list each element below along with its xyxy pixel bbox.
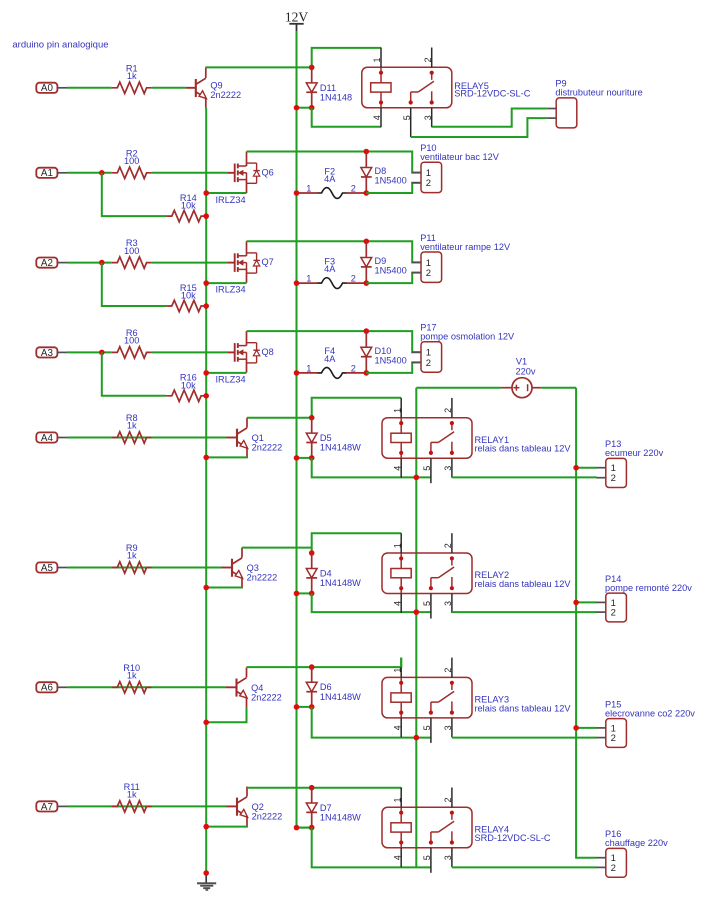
svg-text:2n2222: 2n2222 — [247, 573, 278, 583]
resistor R2 100 — [112, 148, 152, 178]
svg-text:1N4148: 1N4148 — [320, 92, 352, 102]
fuse F2 4A — [297, 166, 367, 198]
fuse F3 4A — [297, 256, 367, 288]
fuse F4 4A — [297, 346, 367, 378]
wire collector to RELAY3 pin 1 — [312, 658, 402, 668]
node 12V rail to F2 — [294, 190, 300, 196]
svg-text:2: 2 — [423, 57, 433, 62]
svg-text:SRD-12VDC-SL-C: SRD-12VDC-SL-C — [475, 833, 551, 843]
svg-text:1N4148W: 1N4148W — [320, 812, 361, 822]
svg-text:ecumeur 220v: ecumeur 220v — [605, 448, 664, 458]
svg-text:A0: A0 — [41, 83, 54, 94]
node 12V rail junction D7 — [294, 825, 300, 831]
node D11 anode junction — [309, 65, 315, 71]
wire D5 bottom to RELAY1 pins 4,5 — [312, 458, 431, 478]
svg-text:pompe remonté 220v: pompe remonté 220v — [605, 583, 692, 593]
svg-text:1k: 1k — [127, 421, 137, 431]
node 12V rail junction row 1 — [294, 105, 300, 111]
svg-text:D7: D7 — [320, 803, 332, 813]
wire A0 to R1 — [67, 87, 112, 89]
wire F4 to P17 pin 2 — [366, 362, 421, 373]
wire F3 to P11 pin 2 — [366, 273, 421, 284]
svg-text:4: 4 — [392, 466, 402, 471]
svg-text:2: 2 — [443, 543, 453, 548]
wire A7 to Q2 base — [67, 805, 227, 807]
wire overlay RELAY3 pin 1 — [400, 658, 402, 668]
svg-text:1N4148W: 1N4148W — [320, 443, 361, 453]
power supply 12V symbol — [285, 10, 309, 32]
node D8 cathode junction — [364, 149, 370, 155]
node Q4 emitter junction — [203, 720, 209, 726]
svg-text:10k: 10k — [181, 201, 196, 211]
wire RELAY4 pin 3 to P16 pin 2 — [452, 866, 597, 868]
wire emitter/ground rail — [205, 108, 207, 873]
svg-text:5: 5 — [422, 855, 432, 860]
svg-text:distrubuteur nouriture: distrubuteur nouriture — [555, 88, 642, 98]
node R14 to ground rail — [203, 213, 209, 219]
node 220v rail junction P13 — [573, 465, 579, 471]
wire 12V rail — [297, 31, 312, 828]
wire R6 to Q8 gate — [152, 351, 228, 353]
wire branch to R16 — [102, 352, 167, 395]
transistor Q2 2n2222 — [227, 787, 283, 827]
svg-text:1N5400: 1N5400 — [375, 355, 407, 365]
svg-text:10k: 10k — [181, 380, 196, 390]
node Q7 source junction — [203, 280, 209, 286]
relay RELAY2 — [382, 533, 571, 618]
svg-text:1k: 1k — [127, 551, 137, 561]
node A3 branch — [99, 350, 105, 356]
svg-text:1: 1 — [306, 274, 311, 284]
node 12V rail to F4 — [294, 370, 300, 376]
node D4 cathode junction — [309, 591, 315, 597]
wire D11 top to RELAY5 pin 1 — [312, 48, 381, 68]
port A6 — [36, 682, 67, 694]
svg-text:1: 1 — [392, 797, 402, 802]
svg-text:2: 2 — [426, 268, 431, 279]
wire Q2 collector to D7 — [247, 787, 312, 789]
svg-text:V1: V1 — [516, 356, 527, 366]
svg-text:relais dans tableau 12V: relais dans tableau 12V — [475, 703, 572, 713]
wire D6 bottom to RELAY3 pins 4,5 — [312, 707, 431, 738]
svg-text:elecrovanne co2 220v: elecrovanne co2 220v — [605, 708, 695, 718]
port A1 — [36, 168, 67, 180]
diode D11 1N4148 — [306, 67, 352, 107]
svg-text:3: 3 — [443, 855, 453, 860]
wire A2 to R3 — [67, 262, 112, 264]
port A2 — [36, 258, 67, 270]
transistor Q6 IRLZ34 — [227, 152, 274, 194]
svg-text:4: 4 — [392, 855, 402, 860]
wire D11 bottom to RELAY5 pin 4 — [312, 108, 381, 127]
svg-text:4: 4 — [392, 601, 402, 606]
wire RELAY1 pin 3 to P13 pin 2 — [452, 476, 597, 478]
resistor R9 1k — [112, 543, 152, 573]
wire 12V rail to D7 bottom — [297, 827, 312, 829]
node D9 anode junction — [364, 280, 370, 286]
svg-text:1: 1 — [372, 57, 382, 62]
wire RELAY2 pin 3 to P14 pin 2 — [452, 611, 597, 613]
label IRLZ34 for Q6 — [216, 195, 246, 205]
relay RELAY1 — [382, 398, 571, 483]
wire relay coil +12V rail — [415, 388, 417, 868]
node 12V rail junction D6 — [294, 704, 300, 710]
wire D5 top to RELAY1 pin 1 — [312, 398, 402, 418]
resistor R6 100 — [112, 328, 152, 358]
svg-text:1k: 1k — [127, 790, 137, 800]
wire A1 to R2 — [67, 172, 112, 174]
connector P16 chauffage 220v — [596, 829, 668, 877]
node Q1 emitter junction — [203, 455, 209, 461]
transistor Q4 2n2222 — [226, 667, 282, 707]
svg-text:5: 5 — [402, 115, 412, 120]
svg-text:2: 2 — [426, 358, 431, 369]
svg-text:3: 3 — [443, 601, 453, 606]
svg-text:2n2222: 2n2222 — [252, 443, 283, 453]
svg-text:IRLZ34: IRLZ34 — [216, 195, 246, 205]
svg-text:A7: A7 — [41, 802, 53, 813]
wire Q7 source to ground rail — [206, 282, 246, 284]
svg-text:SRD-12VDC-SL-C: SRD-12VDC-SL-C — [454, 89, 530, 99]
svg-text:10k: 10k — [181, 291, 196, 301]
svg-text:1N5400: 1N5400 — [375, 176, 407, 186]
wire 220v rail to P16 pin 1 — [576, 388, 597, 858]
wire 12V rail to D4 bottom — [297, 592, 312, 594]
node D9 cathode junction — [364, 239, 370, 245]
wire Q8 source to ground rail — [206, 372, 246, 374]
svg-text:A4: A4 — [41, 433, 54, 444]
wire R1 to Q9 base — [152, 87, 186, 89]
svg-text:D11: D11 — [320, 83, 336, 93]
svg-text:100: 100 — [124, 156, 139, 166]
wire Q1 collector to D5 — [247, 417, 312, 419]
svg-text:4: 4 — [372, 115, 382, 120]
node R15 to ground rail — [203, 303, 209, 309]
connector P17 pompe osmolation 12V — [412, 323, 515, 373]
wire A3 to R6 — [67, 351, 112, 353]
node 12V rail junction D4 — [294, 591, 300, 597]
node 12V rail to F3 — [294, 280, 300, 286]
svg-text:1N4148W: 1N4148W — [320, 578, 361, 588]
svg-text:1: 1 — [392, 543, 402, 548]
wire 12V rail to D5 bottom — [297, 457, 312, 459]
wire D4 bottom to RELAY2 pins 4,5 — [312, 593, 431, 612]
wire 12V rail to D6 bottom — [297, 706, 312, 708]
svg-text:ventilateur bac 12V: ventilateur bac 12V — [420, 152, 500, 162]
wire R2 to Q6 gate — [152, 172, 228, 174]
ground — [197, 875, 216, 890]
svg-text:3: 3 — [423, 115, 433, 120]
wire 220v rail to P14 pin 1 — [576, 601, 597, 603]
node Q6 source junction — [203, 190, 209, 196]
svg-text:1N4148W: 1N4148W — [320, 692, 361, 702]
svg-text:A6: A6 — [41, 683, 54, 694]
relay RELAY3 — [382, 658, 571, 743]
svg-text:Q9: Q9 — [210, 81, 222, 91]
resistor R10 1k — [112, 663, 152, 693]
transistor Q8 IRLZ34 — [227, 331, 274, 373]
diode D10 1N5400 — [361, 331, 407, 373]
connector P10 ventilateur bac 12V — [412, 143, 500, 193]
resistor R8 1k — [112, 413, 152, 443]
node A1 branch — [99, 170, 105, 176]
svg-text:2: 2 — [611, 733, 616, 744]
svg-text:2: 2 — [351, 183, 356, 193]
node +12V rail to RELAY2 coil — [414, 609, 420, 615]
svg-text:ventilateur rampe 12V: ventilateur rampe 12V — [420, 242, 511, 252]
node D5 anode junction — [309, 415, 315, 421]
wire V1 to 220v rail — [541, 387, 576, 389]
connector P14 pompe remonté 220v — [596, 574, 692, 622]
svg-text:2: 2 — [611, 863, 616, 874]
svg-text:1: 1 — [392, 408, 402, 413]
wire +12V rail to V1 — [416, 387, 501, 389]
svg-text:4: 4 — [392, 725, 402, 730]
svg-text:2: 2 — [443, 668, 453, 673]
svg-text:2: 2 — [443, 408, 453, 413]
voltage source V1 220v — [501, 356, 541, 397]
svg-text:arduino pin analogique: arduino pin analogique — [12, 39, 108, 50]
svg-text:D4: D4 — [320, 568, 332, 578]
wire Q6 drain to P10 pin 1 — [247, 152, 422, 173]
node Q2 emitter junction — [203, 824, 209, 830]
node 220v rail junction P15 — [573, 725, 579, 731]
svg-text:Q4: Q4 — [251, 683, 263, 693]
svg-text:IRLZ34: IRLZ34 — [216, 374, 246, 384]
wire collector to RELAY4 pin 1 — [312, 787, 402, 789]
svg-text:Q8: Q8 — [262, 347, 274, 357]
svg-text:5: 5 — [422, 466, 432, 471]
svg-text:1k: 1k — [127, 671, 137, 681]
svg-text:2: 2 — [443, 797, 453, 802]
resistor R15 10k — [166, 283, 206, 312]
label IRLZ34 for Q7 — [216, 285, 246, 295]
svg-text:Q6: Q6 — [262, 167, 274, 177]
wire A5 to Q3 base — [67, 567, 222, 569]
node Q8 source junction — [203, 370, 209, 376]
wire A4 to Q1 base — [67, 437, 227, 439]
wire A6 to Q4 base — [67, 686, 226, 688]
svg-text:1k: 1k — [127, 71, 137, 81]
svg-text:220v: 220v — [516, 367, 536, 377]
transistor Q7 IRLZ34 — [227, 241, 274, 282]
wire Q3 emitter to ground rail — [206, 586, 242, 588]
node D7 cathode junction — [309, 825, 315, 831]
transistor Q1 2n2222 — [227, 418, 283, 458]
svg-text:A1: A1 — [41, 168, 53, 179]
svg-text:12V: 12V — [285, 10, 309, 25]
diode D7 1N4148W — [306, 788, 361, 828]
diode D6 1N4148W — [306, 667, 361, 707]
node ground junction — [203, 870, 209, 876]
connector P13 ecumeur 220v — [596, 439, 663, 487]
wire Q4 collector to D6 — [247, 666, 312, 668]
svg-text:Q2: Q2 — [252, 802, 264, 812]
svg-text:2: 2 — [426, 178, 431, 189]
port A4 — [36, 432, 67, 444]
node +12V rail to RELAY1 coil — [414, 475, 420, 481]
diode D9 1N5400 — [361, 241, 407, 283]
svg-text:Q1: Q1 — [252, 433, 264, 443]
resistor R11 1k — [112, 782, 152, 812]
svg-text:3: 3 — [443, 466, 453, 471]
wire Q3 collector to D4 — [242, 547, 312, 549]
relay RELAY5 SRD-12VDC-SL-C — [362, 48, 531, 138]
port A0 — [36, 83, 67, 95]
connector P11 ventilateur rampe 12V — [412, 233, 511, 283]
wire branch to R14 — [102, 173, 167, 216]
wire R3 to Q7 gate — [152, 262, 228, 264]
relay RELAY4 — [382, 788, 551, 873]
wire Q1 emitter to ground rail — [206, 456, 247, 458]
node D10 anode junction — [364, 370, 370, 376]
svg-text:5: 5 — [422, 725, 432, 730]
svg-text:relais dans tableau 12V: relais dans tableau 12V — [475, 579, 572, 589]
wire D7 bottom to RELAY4 pins 4,5 — [312, 828, 431, 868]
svg-text:D5: D5 — [320, 433, 332, 443]
resistor R14 10k — [166, 193, 206, 222]
label IRLZ34 for Q8 — [216, 374, 246, 384]
node R16 to ground rail — [203, 393, 209, 399]
diode D5 1N4148W — [306, 418, 361, 458]
node Q3 emitter junction — [203, 585, 209, 591]
svg-text:A2: A2 — [41, 258, 53, 269]
resistor R3 100 — [112, 238, 152, 268]
transistor Q9 2n2222 — [185, 68, 241, 108]
svg-text:1N5400: 1N5400 — [375, 266, 407, 276]
wire Q4 emitter to ground rail — [206, 707, 246, 722]
node A2 branch — [99, 260, 105, 266]
svg-text:3: 3 — [443, 725, 453, 730]
wire branch to R15 — [102, 263, 167, 306]
svg-text:4A: 4A — [324, 264, 336, 274]
svg-text:A3: A3 — [41, 348, 54, 359]
node D4 anode junction — [309, 550, 315, 556]
svg-text:2: 2 — [611, 473, 616, 484]
node D11 cathode junction — [309, 105, 315, 111]
svg-text:IRLZ34: IRLZ34 — [216, 285, 246, 295]
svg-text:D6: D6 — [320, 682, 332, 692]
diode D4 1N4148W — [306, 553, 361, 593]
node D6 cathode junction — [309, 704, 315, 710]
svg-text:1: 1 — [392, 668, 402, 673]
wire RELAY5 pin 5 to P9 pin 2 — [411, 118, 547, 137]
wire D4 top to RELAY2 pin 1 — [312, 533, 402, 553]
svg-text:2: 2 — [611, 608, 616, 619]
svg-text:chauffage 220v: chauffage 220v — [605, 838, 668, 848]
diode D8 1N5400 — [361, 152, 407, 194]
svg-text:2n2222: 2n2222 — [252, 812, 283, 822]
port A5 — [36, 562, 67, 574]
wire RELAY3 pin 3 to P15 pin 2 — [452, 737, 597, 739]
resistor R16 10k — [166, 373, 206, 402]
node D6 anode junction — [309, 664, 315, 670]
node +12V rail to RELAY3 coil — [414, 735, 420, 741]
connector P9 distrubuteur nouriture — [547, 79, 643, 128]
node D8 anode junction — [364, 190, 370, 196]
port A7 — [36, 801, 67, 813]
node 220v rail junction P14 — [573, 600, 579, 606]
svg-text:4A: 4A — [324, 354, 336, 364]
wire 220v rail to P13 pin 1 — [576, 467, 597, 469]
transistor Q3 2n2222 — [222, 548, 278, 588]
wire Q6 source to ground rail — [206, 192, 246, 194]
wire Q9 collector to D11 — [206, 66, 312, 69]
title text — [12, 39, 108, 50]
svg-text:D9: D9 — [375, 256, 387, 266]
svg-text:2: 2 — [351, 274, 356, 284]
svg-text:2n2222: 2n2222 — [251, 692, 282, 702]
wire Q8 drain to P17 pin 1 — [247, 331, 422, 352]
svg-text:pompe osmolation 12V: pompe osmolation 12V — [420, 332, 515, 342]
svg-text:D8: D8 — [375, 166, 387, 176]
wire 220v rail to P15 pin 1 — [576, 727, 597, 729]
node 12V rail junction D5 — [294, 455, 300, 461]
wire RELAY5 pin 3 to P9 pin 1 — [432, 109, 547, 127]
node D10 cathode junction — [364, 328, 370, 334]
svg-text:4A: 4A — [324, 174, 336, 184]
svg-text:D10: D10 — [375, 346, 392, 356]
svg-text:1: 1 — [306, 363, 311, 373]
svg-text:A5: A5 — [41, 563, 54, 574]
svg-text:2n2222: 2n2222 — [210, 90, 241, 100]
svg-text:2: 2 — [351, 363, 356, 373]
svg-text:Q3: Q3 — [247, 563, 259, 573]
connector P15 elecrovanne co2 220v — [596, 699, 695, 747]
resistor R1 1k — [112, 63, 152, 93]
node D7 anode junction — [309, 785, 315, 791]
wire 12V rail to D11 bottom — [297, 107, 312, 109]
wire Q2 emitter to ground rail — [206, 825, 247, 827]
node D5 cathode junction — [309, 455, 315, 461]
port A3 — [36, 347, 67, 359]
svg-text:Q7: Q7 — [262, 257, 274, 267]
svg-text:5: 5 — [422, 601, 432, 606]
svg-text:100: 100 — [124, 336, 139, 346]
wire Q7 drain to P11 pin 1 — [247, 241, 422, 262]
svg-text:relais dans tableau 12V: relais dans tableau 12V — [475, 444, 572, 454]
svg-text:1: 1 — [306, 183, 311, 193]
wire F2 to P10 pin 2 — [366, 183, 421, 193]
svg-text:100: 100 — [124, 246, 139, 256]
